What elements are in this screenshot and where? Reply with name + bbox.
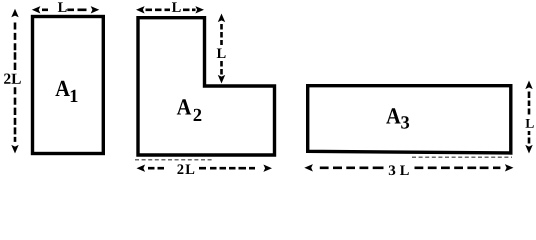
- dashed line upper segments: [528, 92, 531, 115]
- scan shadow under A3: [412, 156, 512, 158]
- scan shadow under A2: [135, 159, 212, 161]
- dashed line segments right: [415, 167, 501, 170]
- right arrowhead: [91, 6, 100, 13]
- right arrowhead: [263, 165, 272, 172]
- left arrowhead: [137, 165, 146, 172]
- dimension arrow L (height of A3): [525, 81, 533, 154]
- dimension arrow L (height of A2 step): [217, 14, 226, 84]
- dashed line lower segments: [528, 131, 531, 144]
- bottom arrowhead: [11, 145, 18, 154]
- value label L: [172, 2, 181, 12]
- left arrowhead: [304, 164, 313, 171]
- bottom arrowhead: [218, 75, 225, 84]
- rectangle A1 (tall rectangle, L wide by 2L high): [33, 17, 104, 154]
- L-shaped region A2 (2L wide base, L wide upper arm): [138, 18, 275, 155]
- value label L: [217, 49, 226, 59]
- label A1: [55, 81, 77, 102]
- dashed line segments right: [183, 9, 196, 12]
- dashed line segments left: [320, 167, 384, 170]
- rectangle A3 (long rectangle, 3L wide by L high): [308, 86, 511, 153]
- value label L: [400, 166, 409, 176]
- dashed line lower segments: [220, 61, 223, 75]
- dashed line lower segments: [14, 87, 17, 142]
- right arrowhead: [505, 164, 514, 171]
- left arrowhead: [136, 6, 145, 13]
- label A2: [177, 99, 202, 121]
- top arrowhead: [525, 81, 532, 90]
- dashed line segments: [146, 9, 171, 12]
- dashed line segments right: [199, 167, 255, 170]
- dashed line segments: [42, 9, 87, 12]
- value label 3: [389, 165, 396, 175]
- dimension arrow 3L (width of A3): [304, 164, 513, 175]
- right arrowhead: [195, 6, 204, 13]
- value label L: [185, 165, 194, 175]
- dimension arrow L (width of A2 upper arm): [136, 2, 204, 13]
- bottom arrowhead: [525, 145, 532, 154]
- value label 2: [177, 164, 183, 174]
- value label L: [58, 2, 67, 12]
- left arrowhead: [32, 6, 41, 13]
- dimension arrow L (width of A1): [32, 2, 100, 13]
- dashed line upper segments: [220, 24, 223, 45]
- top arrowhead: [218, 14, 225, 23]
- dimension arrow 2L (height of A1): [4, 9, 21, 154]
- top arrowhead: [11, 9, 18, 18]
- dashed line segments left: [148, 167, 164, 170]
- dimension arrow 2L (width of A2): [137, 164, 273, 174]
- value label L: [526, 119, 534, 128]
- dashed line upper segments: [14, 23, 17, 71]
- label A3: [386, 108, 409, 128]
- value label 2L: [4, 74, 21, 84]
